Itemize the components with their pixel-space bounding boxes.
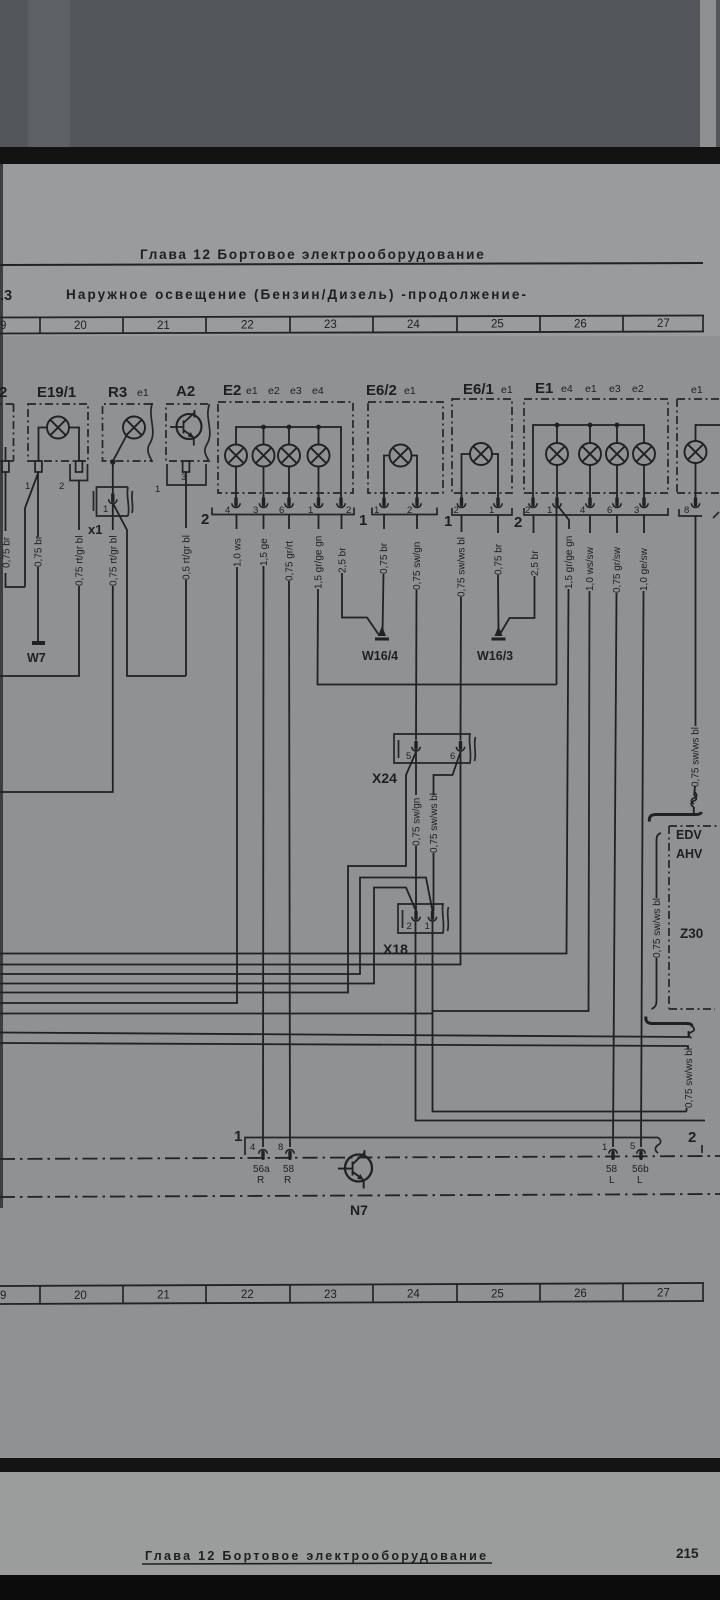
lamp E19/1 (47, 417, 69, 439)
E1 bracket (524, 508, 668, 515)
svg-text:5: 5 (406, 751, 411, 762)
X18 inner tick (402, 910, 404, 928)
svg-text:20: 20 (74, 1290, 87, 1302)
lamp unit E19/1 box (28, 404, 88, 461)
svg-text:0,75 sw/gn: 0,75 sw/gn (412, 798, 423, 846)
svg-text:W16/3: W16/3 (477, 649, 513, 663)
svg-text:0,75 sw/ws bl: 0,75 sw/ws bl (684, 1048, 695, 1108)
svg-text:E19/1: E19/1 (37, 384, 76, 401)
svg-text:e1: e1 (137, 387, 149, 399)
lamp E2 e3 (278, 445, 300, 467)
svg-text:26: 26 (574, 1288, 587, 1300)
svg-text:2: 2 (407, 921, 412, 932)
E6/1 pin 1 (494, 497, 502, 508)
X24 pin 6 (456, 741, 464, 752)
wire E2 pin4 1,0 ws (0, 515, 237, 1004)
svg-text:27: 27 (657, 1288, 670, 1300)
wire E1 pin6 0,75 gr/sw (613, 515, 617, 1147)
svg-text:0,5 rt/gr bl: 0,5 rt/gr bl (182, 535, 193, 580)
squiggle on e1 wire (691, 792, 696, 804)
svg-text:6: 6 (450, 751, 455, 762)
svg-text:0,75 br: 0,75 br (2, 536, 13, 568)
svg-text:8: 8 (684, 505, 689, 516)
inner wire with hooks (652, 833, 662, 1009)
wire E2 pin6 0,75 gr/rt (289, 515, 290, 1148)
A2 pin 3 (183, 461, 190, 472)
svg-text:4: 4 (250, 1142, 255, 1153)
wire E6/2 pin1 0,75 br to W16/4 (383, 515, 385, 635)
svg-text:56b: 56b (632, 1164, 649, 1175)
svg-text:.3: .3 (0, 288, 12, 304)
svg-text:0,75 sw/ws bl: 0,75 sw/ws bl (429, 793, 440, 853)
dash-dot separator line 2 (0, 1194, 720, 1197)
svg-text:0,75 sw/ws bl: 0,75 sw/ws bl (652, 898, 663, 958)
connector X18 box (398, 904, 444, 933)
wire E2 pin2 2,5 br to W16/4 (342, 515, 380, 636)
E1 pin 2 (529, 497, 537, 508)
brace top (649, 812, 701, 822)
lamp E1 e2 (633, 443, 655, 465)
wire lamp to pin 2 (69, 428, 79, 462)
svg-text:9: 9 (0, 320, 6, 332)
E6/1 pin 2 (457, 497, 465, 508)
dash-dot separator line 1 (0, 1156, 720, 1159)
header rule (0, 263, 703, 265)
e1 bracket edge piece (713, 512, 719, 518)
ground terminal W7 (32, 641, 45, 645)
connector X1 box (97, 487, 129, 516)
svg-text:0,75 sw/ws bl: 0,75 sw/ws bl (457, 537, 468, 597)
wire e1 lamp to pin 8 (695, 463, 697, 497)
E2 bus junction dots (261, 425, 321, 430)
X1 inner tick (93, 491, 95, 511)
E1 pin 4 (586, 497, 594, 508)
E2 bus wire (236, 427, 341, 497)
wire pin1 down to W7 (37, 472, 39, 641)
wire X24 pin6 jog to X18 pin1 (434, 752, 461, 911)
wire junction to X1 (112, 462, 114, 493)
connector shell A2 (167, 464, 206, 485)
wire E1 pin3 1,0 ge/sw (641, 515, 644, 1147)
fog lamp E6/2 box (368, 402, 443, 493)
X24 inner tick (398, 740, 400, 758)
E2 pin 3 (259, 497, 267, 508)
E1 bus wire (533, 425, 644, 497)
svg-text:W16/4: W16/4 (362, 649, 398, 663)
wire A2 pin3 down (185, 472, 187, 676)
svg-text:1,0 ws/sw: 1,0 ws/sw (585, 546, 596, 591)
svg-text:1,5 gr/ge gn: 1,5 gr/ge gn (564, 536, 575, 589)
svg-text:L: L (609, 1175, 615, 1186)
X18 wavy edge (448, 907, 449, 931)
svg-text:Наружное освещение (Бензин/Диз: Наружное освещение (Бензин/Дизель) -прод… (66, 287, 528, 302)
svg-text:R: R (257, 1175, 264, 1186)
e1 bracket piece (679, 509, 702, 516)
wire E1 pin1 down (556, 507, 558, 685)
svg-text:AHV: AHV (676, 847, 703, 861)
svg-text:24: 24 (407, 1289, 420, 1301)
svg-text:A2: A2 (176, 383, 195, 400)
E2 pin 6 (285, 497, 293, 508)
EDV box dash-dot (669, 826, 720, 1009)
pin 1 E19/1 (35, 461, 42, 472)
svg-text:EDV: EDV (676, 828, 702, 842)
svg-text:20: 20 (74, 320, 87, 332)
wire X24 pin6 down (0, 751, 461, 965)
E2 bracket (212, 508, 354, 515)
bottom connector row 1 bracket (245, 1138, 658, 1156)
svg-text:2: 2 (0, 384, 7, 401)
svg-text:2: 2 (59, 481, 64, 492)
ground terminal W16/3 (492, 626, 506, 641)
svg-text:23: 23 (324, 1289, 337, 1301)
lamp R3 (123, 417, 145, 439)
wire E6/1 lamp left to pin 2 (462, 454, 471, 497)
lamp E6/2 (390, 445, 412, 467)
wire lamp to pin 1 (39, 428, 48, 462)
svg-text:22: 22 (241, 320, 254, 332)
svg-text:21: 21 (157, 320, 170, 332)
wire X18 pin1 jog left (0, 878, 433, 975)
wire X24 pin5 diagonal branch (0, 752, 416, 993)
component L0 (cut at left edge) box (0, 404, 14, 461)
connector shell around pin 2 (70, 464, 88, 481)
svg-text:21: 21 (157, 1290, 170, 1302)
wire X18 pin2 down to right (416, 921, 706, 1121)
wire E6/2 lamp right to pin 2 (412, 456, 418, 498)
E1 bus junction dots (555, 423, 620, 428)
lamp E2 e2 (253, 445, 275, 467)
svg-text:E1: E1 (535, 380, 553, 397)
svg-text:1,0 ws: 1,0 ws (233, 538, 244, 567)
E2 pin 1 (314, 497, 322, 508)
bottom grid strip (0, 1283, 704, 1304)
svg-text:N7: N7 (350, 1202, 368, 1218)
svg-text:56a: 56a (253, 1164, 270, 1175)
E2 pin 4 (232, 497, 240, 508)
wire E1 pin4 1,0 ws/sw (433, 515, 591, 1011)
control unit A2 box (166, 404, 208, 461)
svg-text:1: 1 (155, 484, 160, 495)
svg-text:0,75 rt/gr bl: 0,75 rt/gr bl (108, 535, 119, 586)
svg-text:0,75 gr/sw: 0,75 gr/sw (612, 546, 623, 593)
pin 4 (56a R) (259, 1150, 267, 1161)
svg-text:0,75 gr/rt: 0,75 gr/rt (285, 541, 296, 581)
svg-text:1: 1 (425, 921, 430, 932)
E6/2 pin 1 (380, 497, 388, 508)
svg-text:215: 215 (676, 1546, 699, 1561)
svg-text:0,75 sw/gn: 0,75 sw/gn (412, 542, 423, 590)
svg-text:X18: X18 (383, 941, 408, 957)
transistor N7 (338, 1150, 372, 1188)
svg-text:2,5 br: 2,5 br (338, 547, 349, 573)
wire R3 lamp to junction (113, 436, 127, 462)
svg-text:e1: e1 (501, 384, 513, 396)
wire X1 diagonal branch (113, 503, 186, 676)
svg-text:1: 1 (25, 481, 30, 492)
brace bottom (646, 1017, 692, 1027)
headlamp unit E1 box (524, 399, 668, 493)
wire pin2 down (0, 481, 79, 677)
A2 wavy right edge (205, 404, 210, 462)
svg-text:E6/2: E6/2 (366, 382, 397, 399)
svg-text:R3: R3 (108, 384, 127, 401)
X24 pin 5 (412, 741, 420, 752)
svg-text:x1: x1 (88, 522, 102, 537)
E1 pin 6 (613, 497, 621, 508)
svg-text:22: 22 (241, 1289, 254, 1301)
svg-text:24: 24 (407, 319, 420, 331)
L0 pin (2, 461, 9, 472)
svg-text:1,5 gr/ge gn: 1,5 gr/ge gn (314, 536, 325, 589)
lamp e1 box (cut) (677, 399, 720, 493)
wire L0 pin down (5, 447, 7, 531)
wire E6/1 pin2 0,75 sw/ws bl to X24 (461, 515, 462, 741)
svg-text:1,0 ge/sw: 1,0 ge/sw (639, 547, 650, 591)
wire E2 pin3 1,5 ge (262, 515, 265, 1148)
R3 wavy right edge (148, 403, 153, 462)
pin 5 (56b L) (637, 1150, 645, 1161)
transistor A2 (170, 410, 202, 446)
pin 2 E19/1 (76, 461, 83, 472)
wire E6/1 pin1 0,75 br to W16/3 (497, 515, 500, 634)
pin 8 (58 R) (286, 1150, 294, 1161)
svg-text:2: 2 (688, 1129, 696, 1146)
edge tick right (701, 1145, 703, 1153)
svg-text:8: 8 (278, 1142, 283, 1153)
E2 pin 2 (337, 497, 345, 508)
svg-text:58: 58 (283, 1164, 295, 1175)
svg-text:Z30: Z30 (680, 926, 703, 941)
X18 pin 1 (428, 911, 436, 922)
connector X24 box (394, 734, 471, 763)
wire horizontal 1035 to Z30 (0, 1031, 689, 1037)
wire horizontal into X18 pin1 line (0, 1013, 433, 1015)
svg-text:0,75 sw/ws bl: 0,75 sw/ws bl (691, 727, 702, 787)
svg-text:1: 1 (234, 1128, 242, 1145)
svg-text:5: 5 (630, 1141, 635, 1152)
svg-text:1: 1 (103, 504, 108, 515)
squiggle below brace (689, 1026, 694, 1038)
svg-text:2: 2 (514, 514, 522, 531)
lamp E2 e1 (225, 445, 247, 467)
ground terminal W16/4 (375, 626, 389, 641)
svg-text:e1: e1 (404, 385, 416, 397)
wire X18 pin2 jog left (0, 888, 416, 984)
E1 pin 1 (553, 497, 561, 508)
svg-text:0,75 br: 0,75 br (494, 543, 505, 575)
svg-text:R: R (284, 1175, 291, 1186)
svg-text:1: 1 (359, 512, 367, 529)
svg-text:26: 26 (574, 319, 587, 331)
svg-text:E6/1: E6/1 (463, 381, 494, 398)
X1 pin 1 (109, 493, 117, 504)
svg-text:Глава 12 Бортовое электрообору: Глава 12 Бортовое электрооборудование (140, 247, 486, 262)
wire pin1 diagonal to x25 (25, 472, 39, 587)
svg-text:L: L (637, 1175, 643, 1186)
svg-text:e1: e1 (691, 384, 703, 396)
lamp E1 e1 (579, 443, 601, 465)
svg-text:25: 25 (491, 319, 504, 331)
wire E6/1 lamp right to pin 1 (492, 454, 498, 497)
svg-text:23: 23 (324, 319, 337, 331)
svg-text:0,75 br: 0,75 br (34, 535, 45, 567)
X18 pin 2 (412, 911, 420, 922)
wire E6/2 pin2 0,75 sw/gn to X24 (416, 515, 417, 741)
svg-text:2,5 br: 2,5 br (530, 550, 541, 576)
lamp E2 e4 (308, 445, 330, 467)
wire X24 pin5 down 0,75 sw/gn (415, 751, 417, 912)
svg-text:Глава 12 Бортовое электрообору: Глава 12 Бортовое электрооборудование (145, 1549, 488, 1563)
svg-text:E2: E2 (223, 382, 241, 399)
junction dot R3 (110, 459, 115, 464)
svg-text:58: 58 (606, 1164, 618, 1175)
svg-text:1: 1 (602, 1142, 607, 1153)
lamp E6/1 (470, 443, 492, 465)
wire E1 pin1 diagonal branch 1,5 gr/ge gn (0, 505, 569, 954)
e1 pin 8 (691, 497, 699, 508)
wire L0 bottom to junction (6, 573, 26, 587)
wire e1 pin8 0,75 sw/ws bl (694, 516, 696, 813)
E6/2 pin 2 (413, 497, 421, 508)
lamp E1 e4 (546, 443, 568, 465)
pin 1 (58 L) (609, 1150, 617, 1161)
wire E6/2 lamp left to pin 1 (384, 456, 390, 498)
wires E2 lamps to pins (236, 467, 319, 498)
svg-text:0,75 rt/gr bl: 0,75 rt/gr bl (75, 535, 86, 586)
svg-text:W7: W7 (27, 651, 46, 665)
lamp E1 e3 (606, 443, 628, 465)
E6/1 bracket (452, 508, 512, 515)
svg-text:X24: X24 (372, 770, 397, 786)
top grid strip (0, 316, 704, 334)
wire X18 pin1 down to right (433, 921, 687, 1112)
wire X1 down (0, 503, 113, 792)
svg-text:25: 25 (491, 1289, 504, 1301)
squiggle above brace (691, 795, 696, 807)
svg-text:0,75 br: 0,75 br (379, 542, 390, 574)
svg-text:1: 1 (444, 513, 452, 530)
svg-text:9: 9 (0, 1290, 6, 1302)
headlamp unit E2 box (218, 402, 353, 493)
wire right riser to horizontal 1046 (0, 1043, 688, 1112)
E1 pin 3 (640, 497, 648, 508)
relay R3 box (103, 404, 152, 461)
E6/2 bracket (372, 508, 437, 515)
lamp e1 (685, 441, 707, 463)
wires E1 lamps to pins (557, 465, 644, 497)
wire e1 lamp top hook (696, 425, 720, 441)
bracket squiggle right end (655, 1138, 660, 1154)
svg-text:2: 2 (201, 511, 209, 528)
svg-text:1,5 ge: 1,5 ge (259, 538, 270, 566)
X24 wavy edge (475, 737, 476, 761)
wire E2 pin1 1,5 gr/ge gn (318, 515, 557, 685)
wire E1 pin2 2,5 br to W16/3 (500, 515, 535, 634)
fog lamp E6/1 box (452, 399, 512, 493)
svg-text:27: 27 (657, 318, 670, 330)
